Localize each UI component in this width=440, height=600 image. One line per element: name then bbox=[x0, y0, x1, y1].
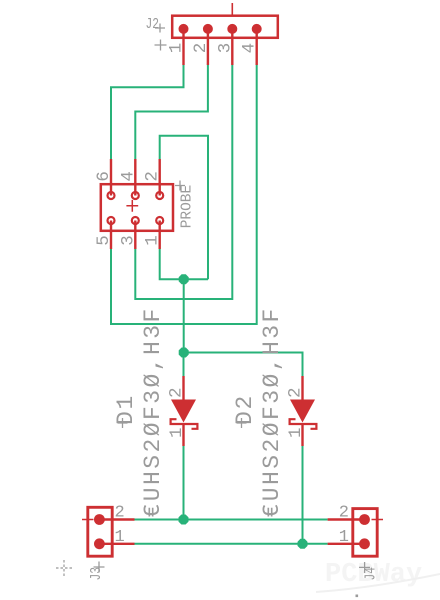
PROBE part origin cross bbox=[126, 200, 138, 212]
svg-text:1: 1 bbox=[115, 528, 125, 547]
PROBE pin 5 pad bbox=[108, 217, 115, 224]
J4 pin 1 pad bbox=[359, 538, 370, 549]
wire node to D1 bbox=[183, 353, 185, 377]
svg-text:5: 5 bbox=[94, 235, 114, 246]
svg-text:2: 2 bbox=[143, 171, 163, 182]
connector J4 outline bbox=[353, 509, 377, 557]
junction node C bbox=[179, 515, 189, 525]
connector J3 outline bbox=[88, 507, 112, 556]
junction node B bbox=[179, 348, 189, 358]
D1 name origin cross bbox=[118, 418, 128, 428]
wire node drop bbox=[183, 279, 185, 352]
svg-text:1: 1 bbox=[167, 43, 187, 54]
svg-text:4: 4 bbox=[240, 43, 260, 54]
watermark PCBWay bbox=[316, 560, 440, 597]
wire PROBE.2 down right bbox=[160, 136, 208, 280]
J2 name origin cross bbox=[155, 24, 165, 33]
PROBE pin 2 stub bbox=[158, 159, 160, 196]
J2 pin 4 pad bbox=[252, 24, 262, 34]
J2 pin 1 pad bbox=[179, 24, 189, 34]
D2 triangle bbox=[290, 400, 315, 423]
sheet origin cross bbox=[56, 560, 72, 576]
wire row2 J3.2 to J4.2 bbox=[135, 519, 328, 521]
J3 pin 1 stub bbox=[99, 543, 134, 545]
svg-text:J3: J3 bbox=[89, 567, 105, 581]
svg-text:1: 1 bbox=[339, 528, 349, 547]
PROBE name origin cross bbox=[175, 181, 185, 191]
J4 pin 2 pad bbox=[359, 514, 370, 525]
J2 pin 2 pad bbox=[203, 24, 213, 34]
junction node D bbox=[298, 539, 308, 549]
wire node to D2 bbox=[184, 353, 303, 377]
svg-text:2: 2 bbox=[167, 387, 187, 398]
wire row1 J3.1 to J4.1 bbox=[135, 543, 328, 545]
svg-text:6: 6 bbox=[94, 171, 114, 182]
PROBE pin 6 stub bbox=[110, 159, 112, 196]
J4 pin 2 stub bbox=[328, 518, 365, 520]
svg-text:1: 1 bbox=[167, 427, 187, 438]
J2 pin 1 stub bbox=[182, 29, 184, 65]
svg-text:2: 2 bbox=[191, 43, 211, 54]
svg-text:2: 2 bbox=[339, 503, 349, 522]
D2 name origin cross bbox=[237, 418, 247, 428]
J3 origin cross bbox=[82, 514, 94, 525]
diode D1 bbox=[171, 376, 198, 446]
svg-text:2: 2 bbox=[286, 387, 306, 398]
PROBE pin 1 stub bbox=[158, 221, 160, 250]
J2 pin 3 stub bbox=[231, 29, 233, 65]
svg-text:D1: D1 bbox=[113, 394, 139, 425]
wire D2 to row1 bbox=[302, 446, 304, 544]
svg-text:3: 3 bbox=[118, 235, 138, 246]
J3 pin 2 stub bbox=[99, 518, 134, 520]
D1 cathode stub bbox=[182, 424, 184, 446]
svg-text:2: 2 bbox=[115, 503, 125, 522]
wire J2.3 to PROBE.3 bbox=[135, 65, 232, 299]
PROBE pin 4 stub bbox=[134, 159, 136, 196]
J3 pin 1 pad bbox=[94, 538, 105, 549]
D1 anode stub bbox=[182, 376, 184, 400]
svg-text:1: 1 bbox=[286, 427, 306, 438]
PROBE pin 3 pad bbox=[132, 217, 139, 224]
wire PROBE.1 to node bbox=[160, 249, 208, 279]
PROBE pin 5 stub bbox=[110, 221, 112, 250]
svg-text:€UHS2ØF3Ø,H3F: €UHS2ØF3Ø,H3F bbox=[140, 306, 166, 517]
header PROBE outline bbox=[101, 184, 173, 231]
J3 name origin cross bbox=[94, 562, 105, 573]
diode D2 bbox=[290, 376, 317, 446]
wire J2.4 to PROBE.5 bbox=[111, 65, 257, 324]
wire D1 to row2 bbox=[183, 446, 185, 520]
svg-text:J2: J2 bbox=[146, 17, 160, 33]
svg-text:PROBE: PROBE bbox=[179, 185, 196, 229]
J4 pin 1 stub bbox=[328, 543, 365, 545]
J2 pin 3 pad bbox=[227, 24, 237, 34]
J4 name origin cross bbox=[359, 562, 370, 573]
svg-text:€UHS2ØF3Ø,H3F: €UHS2ØF3Ø,H3F bbox=[259, 306, 285, 517]
svg-text:D2: D2 bbox=[232, 394, 258, 425]
junction node A bbox=[179, 274, 189, 284]
svg-text:4: 4 bbox=[118, 171, 138, 182]
wire J2.1 to PROBE.6 bbox=[111, 65, 184, 159]
connector J2 origin tick bbox=[231, 3, 233, 15]
D2 cathode stub bbox=[301, 424, 303, 446]
PROBE pin 2 pad bbox=[156, 192, 163, 199]
J2 pin 4 stub bbox=[256, 29, 258, 65]
svg-text:1: 1 bbox=[143, 235, 163, 246]
svg-text:J4: J4 bbox=[364, 567, 380, 581]
PROBE pin 3 stub bbox=[134, 221, 136, 250]
PROBE pin 4 pad bbox=[132, 192, 139, 199]
J2 part origin cross bbox=[155, 40, 167, 51]
D2 anode stub bbox=[301, 376, 303, 400]
J2 pin 2 stub bbox=[207, 29, 209, 65]
PROBE pin 6 pad bbox=[108, 192, 115, 199]
J3 pin 2 pad bbox=[94, 514, 105, 525]
connector J2 outline bbox=[172, 16, 278, 38]
D1 schottky bar bbox=[171, 419, 198, 429]
PROBE pin 1 pad bbox=[156, 217, 163, 224]
svg-text:3: 3 bbox=[215, 43, 235, 54]
J4 origin cross bbox=[372, 514, 384, 525]
D2 schottky bar bbox=[290, 419, 317, 429]
wire J2.2 to PROBE.4 bbox=[135, 65, 208, 159]
D1 triangle bbox=[171, 400, 196, 423]
